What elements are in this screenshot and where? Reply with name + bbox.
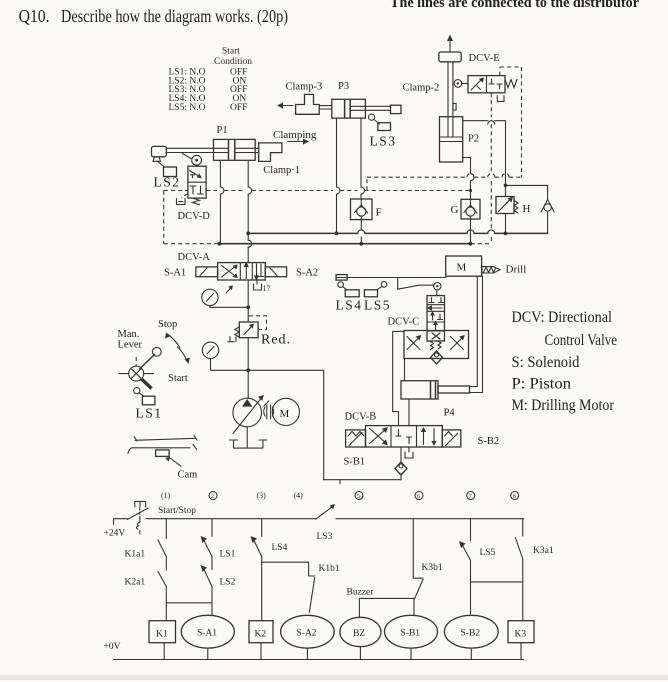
svg-text:S-B1: S-B1: [344, 457, 366, 468]
title Q10: [19, 6, 288, 27]
svg-text:Condition: Condition: [214, 57, 252, 67]
svg-text:K2: K2: [255, 630, 267, 640]
svg-text:+24V: +24V: [104, 529, 126, 539]
roller actuator DCV-E: [454, 80, 468, 88]
return bus line B: [218, 242, 492, 246]
label P4: [444, 408, 456, 419]
label S-B2: [478, 436, 500, 447]
spring DCV-E: [505, 80, 517, 88]
drain check valve under DCV-B: [395, 447, 407, 480]
label Drill: [506, 264, 527, 276]
svg-text:K3b1: K3b1: [422, 563, 443, 573]
svg-text:K1a1: K1a1: [125, 550, 146, 560]
svg-text:Clamp·1: Clamp·1: [263, 165, 300, 176]
svg-text:5: 5: [357, 494, 360, 500]
limit switch LS2: [154, 162, 181, 190]
legend text: [512, 309, 618, 414]
drain return line: [324, 480, 401, 484]
svg-text:S-A1: S-A1: [197, 629, 217, 639]
pilot dashed branch to return bus: [164, 191, 220, 244]
cylinder P4: [401, 381, 470, 399]
link rung3-rung4: [262, 561, 309, 563]
rung8 wire: [522, 519, 524, 621]
label Start: [168, 373, 188, 384]
solenoid S-B1: [346, 430, 366, 447]
rung4 wire: [309, 562, 315, 576]
label Clamp-3: [286, 82, 323, 93]
spring middle block: [431, 341, 442, 350]
svg-text:Red.: Red.: [261, 333, 291, 348]
svg-text:Start: Start: [168, 373, 188, 384]
clipped heading text top right: [390, 0, 639, 11]
svg-text:S-B1: S-B1: [401, 629, 421, 639]
reducing valve Red: [228, 316, 267, 342]
svg-text:K3a1: K3a1: [533, 546, 554, 556]
label LS4 LS5: [336, 298, 392, 313]
rung3 wire: [261, 519, 263, 621]
svg-text:K1: K1: [156, 630, 168, 640]
label G: [451, 204, 459, 216]
svg-text:M: Drilling Motor: M: Drilling Motor: [512, 397, 615, 414]
label Clamping with arrow: [273, 129, 317, 145]
pump: [233, 395, 264, 434]
svg-text:H: H: [523, 203, 531, 215]
svg-text:P3: P3: [338, 81, 349, 92]
clamp-1 jaw: [259, 143, 282, 162]
svg-text:LS1: LS1: [220, 550, 236, 560]
contact LS4: [251, 536, 288, 557]
arc arrow start: [178, 347, 190, 364]
contact K1b1: [309, 564, 340, 613]
solenoid S-B2: [442, 430, 461, 447]
label DCV-D: [178, 211, 211, 222]
svg-text:BZ: BZ: [353, 629, 365, 639]
svg-text:S: Solenoid: S: Solenoid: [512, 354, 580, 371]
arc arrow stop: [165, 333, 180, 349]
limit switch LS3 contact in rail: [316, 504, 335, 542]
limit switch LS4: [338, 282, 359, 297]
svg-text:The lines are connected to the: The lines are connected to the distribut…: [390, 0, 639, 11]
svg-text:K2a1: K2a1: [125, 578, 146, 588]
roller DCV-C: [434, 283, 441, 296]
solenoid S-A2: [265, 267, 286, 277]
svg-text:OFF: OFF: [230, 103, 247, 113]
svg-text:F: F: [376, 207, 382, 219]
label DCV-A: [178, 252, 211, 263]
svg-text:LS3: LS3: [317, 532, 333, 542]
label Clamp-2: [403, 83, 440, 94]
rod P3 right with end block: [351, 105, 401, 113]
rung1 wire: [165, 519, 167, 621]
label Start/Stop: [158, 506, 196, 516]
svg-text:LS5: LS5: [480, 548, 496, 558]
wire block bottom to P4: [404, 359, 406, 381]
svg-text:P: Piston: P: Piston: [512, 376, 572, 393]
cylinder P2: [440, 117, 463, 162]
svg-text:(4): (4): [294, 491, 304, 500]
label +24V: [104, 529, 126, 539]
svg-text:S-A2: S-A2: [296, 268, 318, 279]
wire G down to return bus: [469, 219, 473, 246]
tank under pump: [230, 427, 267, 448]
svg-text:+0V: +0V: [104, 642, 121, 652]
cylinder P3: [332, 99, 366, 118]
wire P4 bottom port: [408, 399, 410, 426]
contact LS5: [459, 541, 496, 560]
svg-text:P2: P2: [468, 134, 479, 145]
check valve right branch: [541, 200, 554, 213]
drain symbol under DCV-E: [497, 96, 504, 102]
solenoid S-A1: [196, 267, 218, 277]
svg-text:M: M: [280, 408, 290, 420]
motor line 2: [470, 276, 483, 392]
ladder column numbers: [161, 491, 519, 500]
svg-text:G: G: [451, 204, 459, 216]
rung5 wire buzzer: [359, 598, 414, 617]
coil S-B2: [444, 615, 498, 659]
rung2 wire: [211, 519, 213, 616]
motor line 1: [470, 276, 478, 386]
svg-text:DCV: Directional: DCV: Directional: [512, 309, 613, 326]
svg-text:Control Valve: Control Valve: [545, 332, 618, 349]
clamp-3 jaw: [296, 94, 320, 114]
drill arrow: [482, 267, 500, 273]
svg-text:Cam: Cam: [178, 470, 198, 481]
label DCV-E: [469, 53, 500, 64]
drain dashed line from DCV-E down: [490, 93, 492, 244]
check valve in block: [431, 351, 443, 364]
label P1: [217, 125, 228, 136]
label S-A2: [296, 268, 318, 279]
valve DCV-E: [468, 76, 505, 93]
wire P2 top port to H: [463, 121, 506, 186]
wire P3 left port down to bus: [335, 118, 340, 235]
coupling: [264, 401, 274, 419]
svg-text:DCV-D: DCV-D: [178, 211, 211, 222]
svg-text:DCV-C: DCV-C: [388, 317, 420, 328]
wire P1 right port down to DCV-A: [248, 160, 252, 262]
svg-text:Clamping: Clamping: [273, 129, 317, 141]
svg-text:Start/Stop: Start/Stop: [158, 506, 196, 516]
pushbutton start/stop: [128, 501, 149, 534]
svg-text:LS3: LS3: [370, 134, 397, 149]
main supply line down: [246, 280, 250, 399]
coil K1: [149, 621, 176, 660]
svg-text:Q10.: Q10.: [19, 6, 50, 26]
piston rod P1 right: [235, 148, 259, 152]
label Cam: [178, 470, 198, 481]
electric motor M: [272, 398, 299, 425]
contact K3b1: [414, 563, 443, 600]
contact K3a1: [515, 538, 553, 560]
svg-text:P4: P4: [444, 408, 456, 419]
label P2: [468, 134, 479, 145]
bottom rail +0V: [104, 642, 524, 660]
label Buzzer: [347, 588, 375, 598]
svg-text:8: 8: [513, 494, 516, 500]
arrow up drill stroke: [447, 35, 453, 52]
svg-text:K3: K3: [515, 630, 527, 640]
piston rod P1 left: [166, 148, 228, 152]
rod end block left: [152, 146, 167, 161]
drilling motor box M: [446, 256, 482, 276]
contact K2a1: [125, 572, 167, 588]
label P3: [338, 81, 349, 92]
valve DCV-B: [366, 426, 443, 447]
pilot dashed line lower left: [164, 189, 472, 192]
cam linkage to DCV-C roller: [398, 278, 434, 290]
clamp-2 plate: [439, 52, 461, 62]
valve DCV-C: [427, 296, 445, 341]
wire H down to bus: [504, 214, 508, 236]
roller actuator of DCV-D on rod: [183, 154, 202, 167]
label Red.: [261, 333, 291, 348]
limit switch LS3: [369, 114, 397, 148]
svg-text:Describe how the diagram works: Describe how the diagram works. (20p): [61, 6, 288, 27]
pressure bus line A: [246, 230, 547, 235]
svg-text:Drill: Drill: [506, 264, 527, 276]
pilot dashed vertical right of DCV-E: [521, 67, 523, 177]
coil BZ: [340, 617, 381, 659]
flow control block: [404, 331, 469, 359]
svg-text:Start: Start: [222, 47, 240, 57]
check valve F: [351, 199, 373, 220]
svg-text:S-B2: S-B2: [478, 436, 500, 447]
label H: [523, 203, 531, 215]
svg-text:LS4: LS4: [336, 298, 363, 313]
limit switch LS5: [364, 282, 386, 297]
link rung7-rung8: [471, 581, 523, 583]
drain tank under DCV-B: [405, 447, 413, 458]
svg-text:LS4: LS4: [272, 543, 288, 553]
svg-text:DCV-E: DCV-E: [469, 53, 500, 64]
coil S-A1: [181, 615, 234, 659]
svg-text:S-A1: S-A1: [164, 268, 186, 279]
svg-text:DCV-B: DCV-B: [345, 412, 377, 423]
rung7 wire: [470, 519, 472, 614]
valve DCV-D: [177, 166, 207, 205]
svg-text:LS5: N.O: LS5: N.O: [169, 103, 206, 113]
svg-text:S-B2: S-B2: [461, 629, 481, 639]
coil K3: [508, 621, 534, 660]
contact LS2: [201, 565, 236, 588]
flow control valve right: [451, 335, 465, 350]
cylinder P1: [214, 139, 256, 160]
cam plate: [128, 436, 197, 467]
contact LS1: [201, 536, 236, 560]
svg-text:DCV-A: DCV-A: [178, 252, 211, 263]
svg-text:Clamp-3: Clamp-3: [286, 82, 323, 93]
label Man. Lever: [118, 329, 143, 351]
pilot dashed corner to upper level: [367, 174, 522, 191]
drain 17 under DCV-A: [254, 280, 271, 293]
label Stop: [158, 319, 177, 330]
check valve G: [461, 199, 480, 219]
coil K2: [249, 621, 273, 660]
gauge 2: [202, 342, 248, 370]
drain arrow under DCV-A: [226, 285, 233, 293]
pump supply branch line: [248, 370, 324, 479]
arrow left clamp-3: [277, 103, 293, 109]
svg-text:LS2: LS2: [154, 175, 181, 190]
label S-B1: [344, 457, 366, 468]
svg-text:(1): (1): [161, 491, 171, 500]
svg-text:M: M: [457, 262, 467, 274]
start condition table: [169, 47, 253, 114]
svg-text:7: 7: [469, 494, 472, 500]
svg-text:(3): (3): [257, 491, 267, 500]
rod P3 left: [319, 106, 332, 109]
svg-text:Stop: Stop: [158, 319, 177, 330]
contact K1a1: [125, 540, 167, 560]
piston rod clamp-2: [448, 62, 456, 117]
svg-text:17: 17: [263, 284, 271, 293]
gauge 1: [202, 289, 250, 309]
wire branch to check valve: [504, 184, 548, 200]
label S-A1: [164, 268, 186, 279]
coil S-A2: [281, 615, 335, 659]
top rail +24V: [114, 519, 524, 525]
valve DCV-A: [218, 262, 266, 281]
svg-text:Buzzer: Buzzer: [347, 588, 375, 598]
svg-text:LS1: LS1: [136, 406, 163, 421]
coil S-B1: [385, 615, 438, 659]
manual lever: [119, 347, 161, 388]
svg-text:Clamp-2: Clamp-2: [403, 83, 440, 94]
svg-text:Man.: Man.: [118, 329, 140, 340]
rung6 wire: [413, 519, 423, 616]
parallel link rung1-rung2: [166, 602, 212, 604]
svg-text:K1b1: K1b1: [319, 564, 340, 574]
wire P1 left port down: [220, 160, 224, 243]
wire check valve to bus corner: [544, 212, 548, 233]
label Clamp-1: [263, 165, 300, 176]
svg-text:6: 6: [417, 494, 420, 500]
svg-text:S-A2: S-A2: [297, 629, 317, 639]
svg-text:Lever: Lever: [118, 340, 143, 351]
limit switch LS1: [134, 388, 163, 421]
slide bar from M: [336, 275, 446, 281]
svg-text:P1: P1: [217, 125, 228, 136]
flow control valve left: [407, 335, 421, 350]
wire P3 right port down to F: [361, 118, 365, 198]
label DCV-B: [345, 412, 377, 423]
throttle valve H: [496, 197, 518, 214]
svg-text:2: 2: [211, 494, 214, 500]
wire block to DCV-B: [393, 331, 404, 425]
label DCV-C: [388, 317, 420, 328]
svg-text:LS2: LS2: [220, 578, 236, 588]
wire P2 bottom port down to G: [463, 158, 474, 200]
pilot dashes DCV-E top: [500, 67, 522, 76]
label F: [376, 207, 382, 219]
svg-text:LS5: LS5: [364, 298, 391, 313]
wire F down to return bus: [359, 220, 363, 246]
